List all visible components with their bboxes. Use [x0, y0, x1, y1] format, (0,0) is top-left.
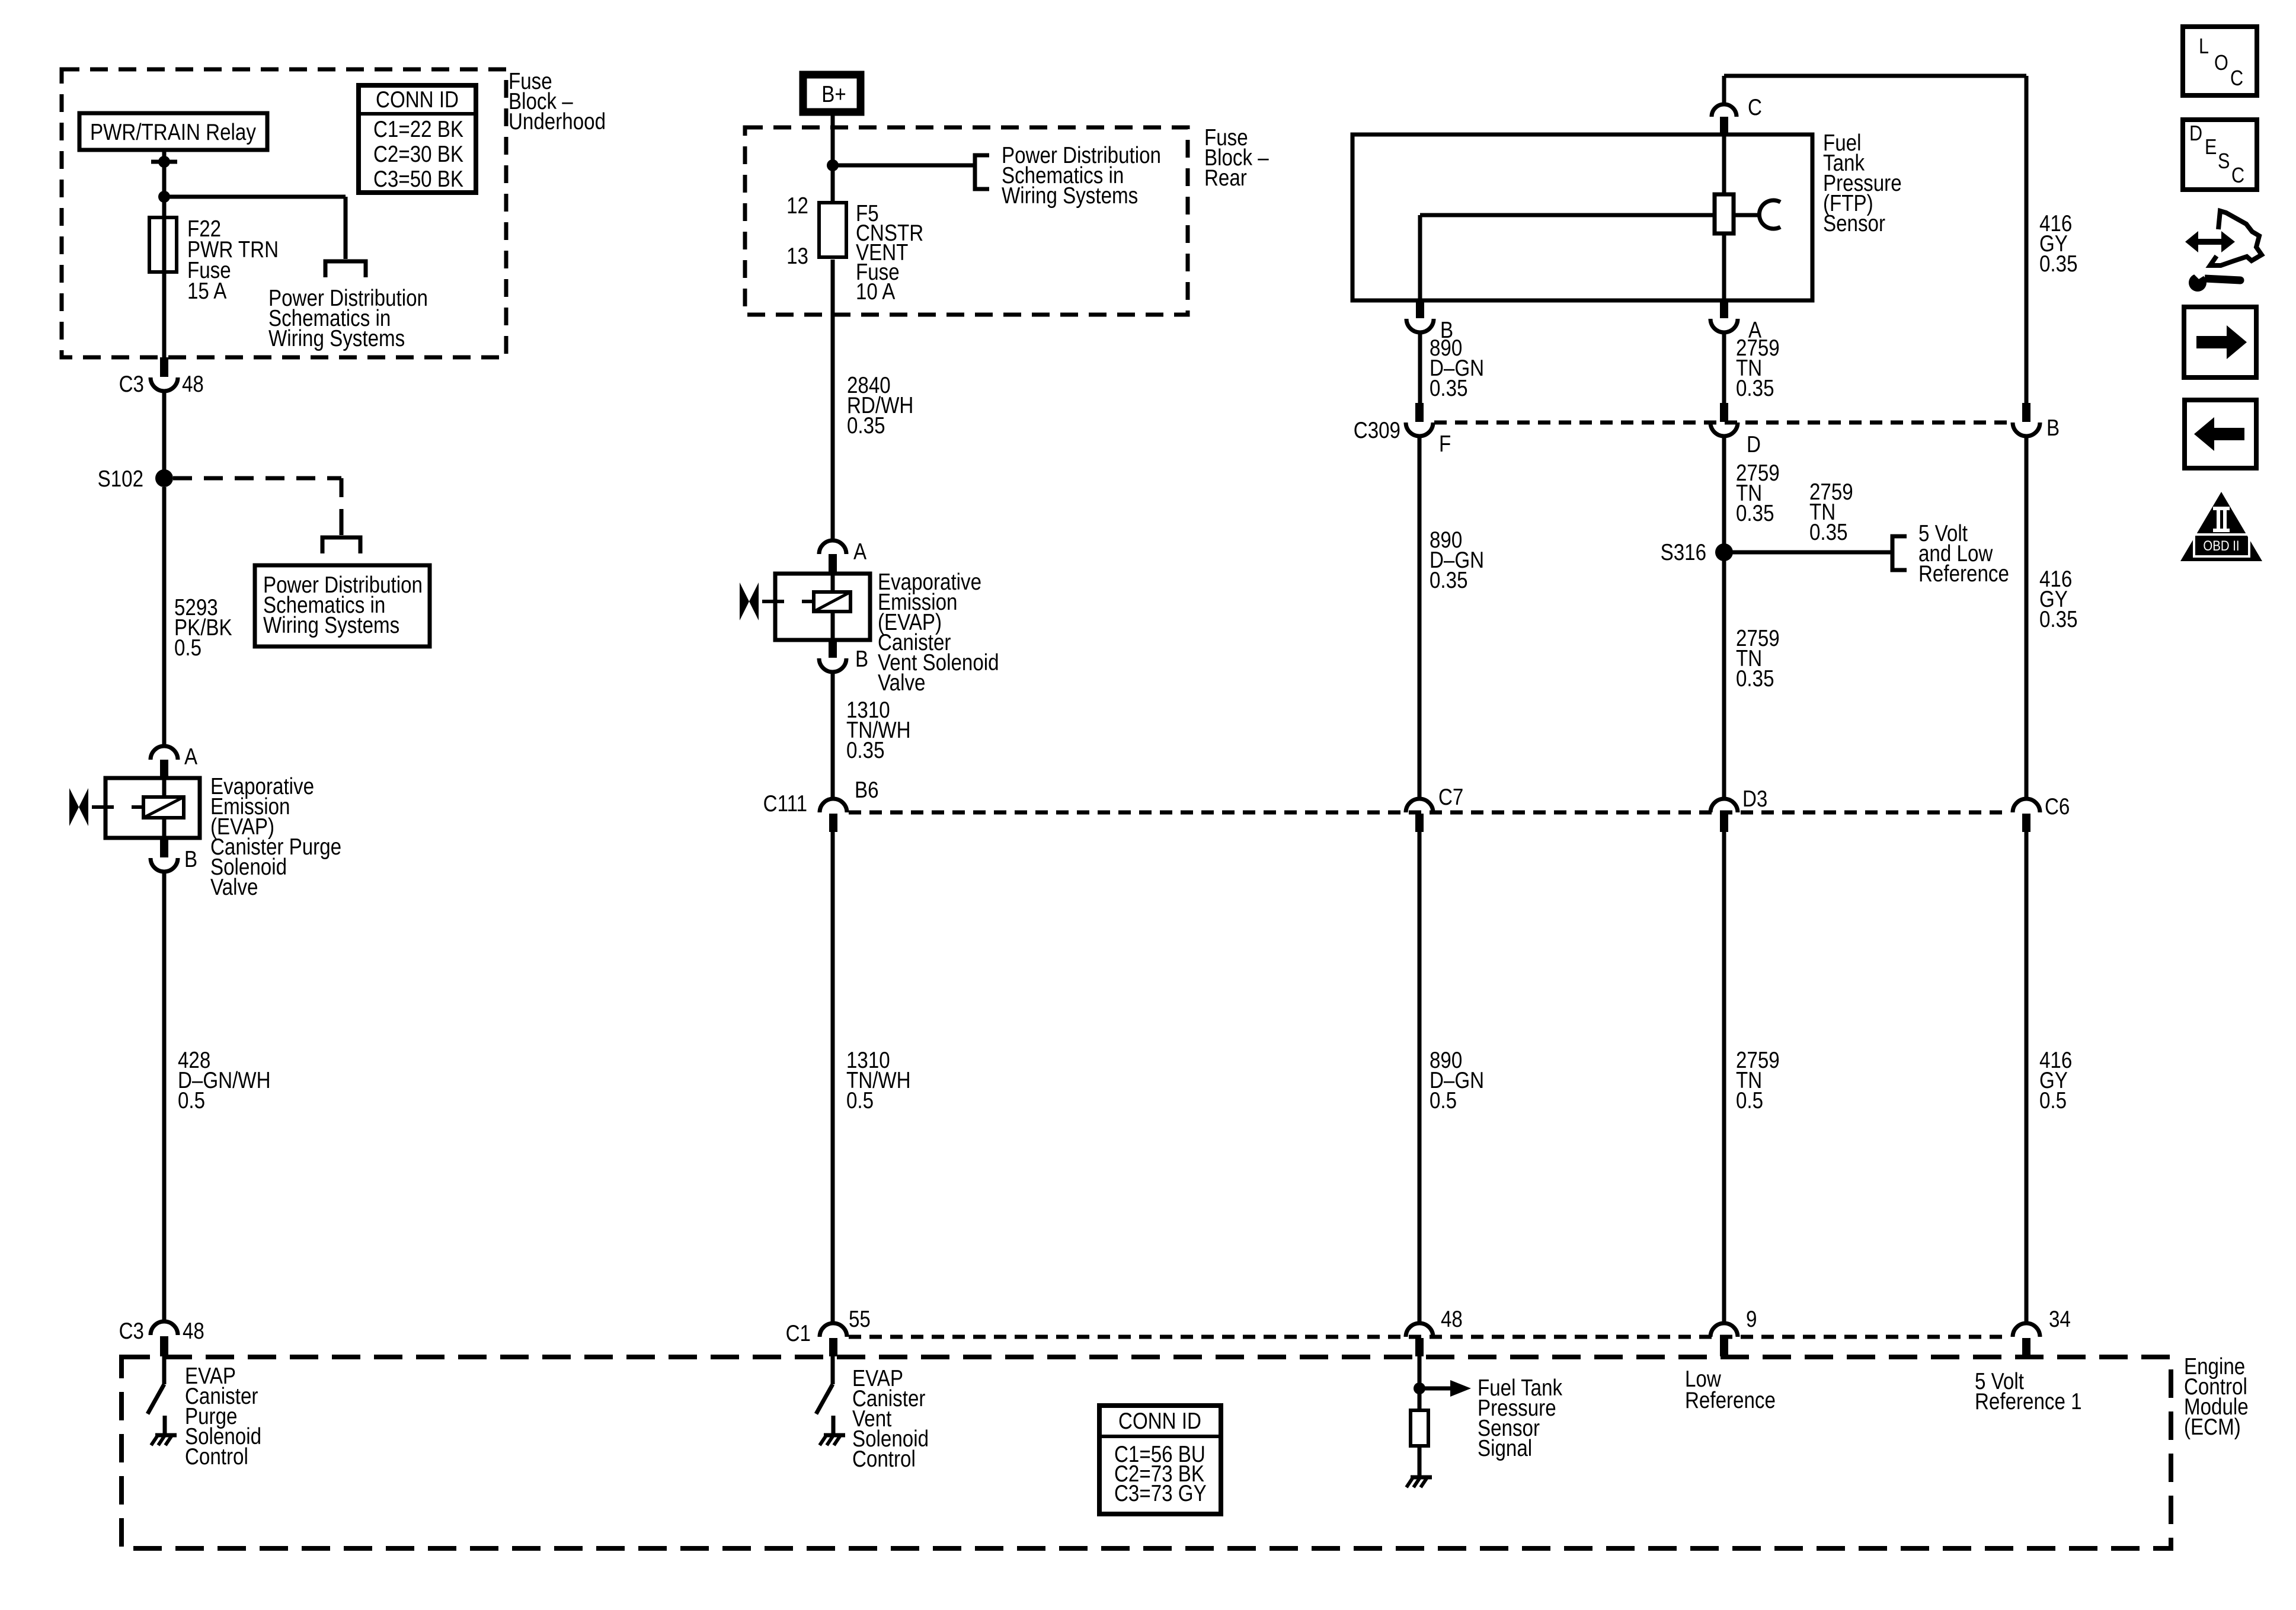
EVAP canister purge solenoid control switch	[148, 1356, 164, 1414]
off-page bracket power distribution (rear)	[975, 155, 989, 189]
wire label 2759 TN 0.35 (below D)	[1736, 459, 1780, 526]
connector C3 pin 48 (top)	[119, 357, 204, 397]
wire relay to fuse F22	[162, 150, 167, 224]
vent valve pin B	[819, 640, 868, 672]
wire F22 to connector C3-48	[162, 271, 167, 357]
svg-text:PWR/TRAIN Relay: PWR/TRAIN Relay	[90, 119, 257, 145]
svg-text:0.35: 0.35	[846, 737, 885, 763]
fuse block underhood box	[62, 69, 506, 357]
svg-text:Wiring Systems: Wiring Systems	[268, 325, 405, 351]
5 volt reference 1 label	[1975, 1368, 2082, 1414]
signal label	[1478, 1374, 1563, 1461]
wire C111-B6 to ECM C1-55	[831, 832, 835, 1324]
svg-text:C2=30 BK: C2=30 BK	[373, 140, 463, 167]
wire label 416 GY 0.5	[2039, 1046, 2072, 1113]
splice S102	[98, 465, 173, 491]
fuse block underhood label	[509, 68, 606, 134]
ground ECM signal	[1406, 1477, 1432, 1487]
FTP pin B	[1406, 300, 1453, 343]
wire purge valve to ECM C3-48	[162, 872, 167, 1321]
wire label 2759 TN 0.35 (upper)	[1736, 334, 1780, 401]
FTP pin C	[1712, 76, 1762, 135]
connector C111 pin D3	[1710, 785, 1767, 832]
svg-text:12: 12	[786, 192, 808, 218]
wire C309-F to C111-C7	[1418, 436, 1422, 799]
power distribution boxed text (S102)	[255, 565, 430, 646]
svg-text:0.35: 0.35	[1809, 518, 1848, 545]
svg-text:OBD II: OBD II	[2203, 537, 2239, 553]
svg-text:D: D	[1747, 431, 1761, 457]
connector C309 pin F	[1354, 403, 1451, 457]
node junction to power distribution (underhood)	[158, 191, 346, 259]
ECM connector pin 48	[1406, 1305, 1463, 1356]
svg-text:D3: D3	[1742, 785, 1767, 811]
svg-text:0.5: 0.5	[1430, 1087, 1457, 1113]
svg-text:S102: S102	[98, 465, 143, 491]
svg-text:Signal: Signal	[1478, 1435, 1532, 1461]
power distribution text (underhood)	[268, 284, 428, 351]
off-page bracket S102 branch	[322, 537, 360, 553]
svg-text:C: C	[1748, 94, 1762, 120]
connector C111 pin B6	[763, 776, 879, 832]
svg-text:0.5: 0.5	[174, 634, 202, 660]
svg-text:C3=73 GY: C3=73 GY	[1114, 1480, 1207, 1506]
fuse block rear box	[745, 127, 1188, 315]
icon LOC box	[2183, 27, 2257, 95]
wire C111-C7 to ECM pin 48	[1418, 832, 1422, 1321]
svg-text:Valve: Valve	[210, 873, 258, 900]
EVAP canister purge solenoid valve U1	[105, 778, 200, 838]
svg-text:48: 48	[183, 1317, 204, 1343]
wire S102 to EVAP purge valve pin A	[162, 487, 167, 746]
wire label 2759 TN 0.35 (branch)	[1809, 478, 1853, 545]
svg-text:B: B	[2046, 414, 2060, 440]
svg-text:0.5: 0.5	[2039, 1087, 2067, 1113]
FTP transducer element	[1715, 135, 1780, 300]
purge control label	[185, 1362, 261, 1469]
wire label 1310 TN/WH 0.35	[846, 696, 911, 763]
wire FTP pin C top run to right side	[1724, 76, 2026, 403]
relay K PWR/TRAIN Relay box	[79, 113, 267, 150]
wire label 1310 TN/WH 0.5	[846, 1046, 911, 1113]
svg-text:Rear: Rear	[1204, 164, 1247, 190]
wire vent valve to connector C111-B6	[831, 672, 835, 799]
FTP internal wire to pin B	[1420, 215, 1715, 300]
svg-text:15 A: 15 A	[187, 277, 227, 303]
vent valve actuator bowtie	[740, 582, 814, 620]
svg-text:A: A	[184, 743, 198, 769]
engine control module (ECM) dashed box	[121, 1357, 2171, 1548]
icon next arrow box	[2184, 307, 2256, 377]
low reference label	[1685, 1365, 1776, 1413]
connector C1 pin 55	[786, 1305, 871, 1356]
splice S316	[1661, 539, 1891, 565]
svg-text:0.35: 0.35	[1736, 500, 1774, 526]
text 5 volt and low reference	[1918, 520, 2009, 586]
wire B+ down to fuse F5	[831, 112, 835, 201]
battery feed B+	[803, 75, 861, 112]
ECM label	[2184, 1353, 2249, 1439]
wire FTP-A to C309-D	[1722, 332, 1726, 403]
svg-text:0.5: 0.5	[178, 1087, 205, 1113]
svg-text:C1=22 BK: C1=22 BK	[373, 116, 463, 142]
connector row C1 dashed line	[849, 1335, 2010, 1339]
svg-text:E: E	[2205, 136, 2217, 159]
svg-text:A: A	[853, 538, 867, 564]
svg-text:0.35: 0.35	[1430, 375, 1468, 401]
connector C111 pin C6	[2013, 793, 2070, 832]
fuse block rear label	[1204, 124, 1269, 190]
node fuel tank pressure sensor signal	[1414, 1356, 1471, 1410]
svg-text:0.5: 0.5	[1736, 1087, 1763, 1113]
wire C309-D to C111-D3	[1722, 436, 1726, 799]
svg-text:0.35: 0.35	[847, 412, 885, 438]
svg-text:B6: B6	[855, 776, 879, 802]
svg-text:Underhood: Underhood	[509, 108, 606, 134]
icon DESC box	[2183, 120, 2257, 190]
svg-text:Reference: Reference	[1918, 560, 2009, 586]
svg-text:C7: C7	[1438, 783, 1463, 809]
ECM connector pin 9	[1710, 1305, 1757, 1356]
EVAP canister vent solenoid control switch	[816, 1356, 833, 1414]
icon previous arrow box	[2185, 400, 2256, 468]
svg-text:D: D	[2189, 122, 2202, 146]
svg-text:S: S	[2218, 150, 2230, 174]
svg-text:10 A: 10 A	[856, 278, 896, 304]
svg-text:B: B	[184, 846, 197, 872]
connector C309 pin B	[2013, 403, 2060, 441]
wire F5 to EVAP vent valve pin A	[831, 260, 835, 540]
CONN ID table (ECM)	[1099, 1406, 1221, 1514]
FTP sensor label	[1823, 129, 1902, 236]
svg-text:Control: Control	[185, 1443, 248, 1469]
icon OBD II triangle	[2180, 492, 2262, 561]
fuel tank pressure sensor box	[1352, 135, 1812, 300]
svg-text:0.35: 0.35	[1736, 375, 1774, 401]
fuse F5 CNSTR VENT 10A	[786, 192, 923, 304]
wire C3-48 to splice S102	[162, 391, 167, 474]
svg-text:Sensor: Sensor	[1823, 210, 1885, 236]
svg-text:CONN ID: CONN ID	[1118, 1407, 1201, 1433]
vent valve label	[878, 568, 999, 695]
node junction to power distribution (rear)	[827, 159, 974, 171]
connector C309 pin D	[1710, 403, 1761, 457]
ECM connector pin 34	[2013, 1305, 2071, 1356]
svg-text:(ECM): (ECM)	[2184, 1413, 2241, 1439]
purge valve actuator bowtie	[69, 788, 143, 826]
dashed branch from S102	[173, 478, 341, 535]
icon component view arrow and wrench	[2185, 211, 2262, 292]
svg-text:Control: Control	[852, 1445, 916, 1471]
svg-text:0.5: 0.5	[846, 1087, 874, 1113]
wire label 890 D-GN 0.5	[1430, 1046, 1484, 1113]
vent valve pin A	[819, 538, 867, 574]
svg-text:C3=50 BK: C3=50 BK	[373, 165, 463, 191]
power distribution text (rear)	[1002, 142, 1161, 208]
svg-text:L: L	[2199, 35, 2209, 59]
svg-text:C3: C3	[119, 370, 144, 396]
purge valve pin A	[151, 743, 198, 778]
svg-text:13: 13	[786, 242, 808, 268]
CONN ID table (underhood)	[359, 85, 476, 193]
svg-text:9: 9	[1746, 1305, 1757, 1331]
resistor pull in ECM	[1411, 1410, 1428, 1475]
off-page bracket 5 volt and low reference	[1892, 536, 1907, 570]
EVAP canister vent solenoid valve U2	[775, 574, 870, 640]
wire label 2840 RD/WH 0.35	[847, 372, 913, 438]
svg-text:55: 55	[849, 1305, 871, 1331]
svg-text:CONN ID: CONN ID	[376, 86, 459, 112]
svg-text:C6: C6	[2045, 793, 2070, 819]
FTP pin A	[1710, 300, 1762, 343]
svg-text:S316: S316	[1661, 539, 1706, 565]
purge valve label	[210, 773, 341, 900]
ground vent control	[820, 1416, 845, 1445]
svg-text:Valve: Valve	[878, 669, 925, 695]
wire label 428 D-GN/WH 0.5	[178, 1046, 271, 1113]
wire C111-D3 to ECM pin 9	[1722, 832, 1726, 1321]
wire label 5293 PK/BK 0.5	[174, 594, 232, 660]
wire label 416 GY 0.35 (upper)	[2039, 210, 2078, 276]
svg-text:O: O	[2214, 52, 2228, 75]
svg-text:0.35: 0.35	[1430, 566, 1468, 593]
svg-text:0.35: 0.35	[2039, 250, 2078, 276]
connector C3 pin 48 (bottom row)	[119, 1317, 204, 1356]
wire label 2759 TN 0.35 (below S316)	[1736, 625, 1780, 691]
ground purge control	[151, 1416, 177, 1445]
svg-text:48: 48	[182, 370, 204, 396]
svg-text:Wiring Systems: Wiring Systems	[1002, 182, 1138, 208]
svg-text:C3: C3	[119, 1317, 144, 1343]
svg-text:F: F	[1439, 430, 1451, 456]
wire label 416 GY 0.35 (middle)	[2039, 565, 2078, 632]
fuse F22 PWR TRN 15A	[149, 215, 279, 303]
connector row C111 dashed line	[849, 811, 2010, 815]
svg-text:C111: C111	[763, 790, 807, 816]
connector row C309 dashed line	[1434, 421, 2012, 425]
connector C111 pin C7	[1406, 783, 1463, 832]
svg-text:Reference 1: Reference 1	[1975, 1388, 2082, 1414]
wire label 890 D-GN 0.35 (upper)	[1430, 334, 1484, 401]
splice crossbar under relay	[151, 156, 177, 168]
svg-text:48: 48	[1441, 1305, 1463, 1331]
svg-text:0.35: 0.35	[2039, 606, 2078, 632]
svg-text:C309: C309	[1354, 417, 1400, 443]
vent control label	[852, 1365, 929, 1471]
svg-text:C: C	[2231, 164, 2244, 188]
svg-text:C1: C1	[786, 1320, 811, 1346]
wire C309-B to C111-C6	[2025, 436, 2029, 799]
svg-text:B+: B+	[821, 81, 846, 107]
off-page bracket power distribution (underhood)	[325, 261, 366, 277]
svg-text:C: C	[2230, 67, 2243, 91]
svg-text:Wiring Systems: Wiring Systems	[263, 612, 399, 638]
wire FTP-B to C309-F	[1418, 332, 1422, 403]
wire label 2759 TN 0.5	[1736, 1046, 1780, 1113]
wire label 890 D-GN 0.35 (lower)	[1430, 526, 1484, 593]
wire C111-C6 to ECM pin 34	[2025, 832, 2029, 1321]
svg-text:Reference: Reference	[1685, 1387, 1776, 1413]
purge valve pin B	[151, 838, 197, 872]
svg-text:34: 34	[2049, 1305, 2071, 1331]
svg-text:0.35: 0.35	[1736, 665, 1774, 691]
svg-text:B: B	[855, 645, 868, 671]
